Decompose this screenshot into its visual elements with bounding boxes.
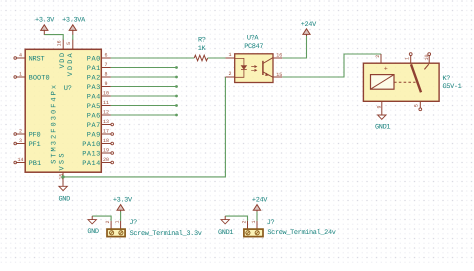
pin 3 PF1	[14, 138, 41, 149]
power symbol +3.3V	[35, 16, 55, 35]
microcontroller U? STM32F030F4Px body	[25, 49, 101, 172]
svg-text:9: 9	[104, 81, 107, 87]
svg-text:9: 9	[377, 105, 383, 108]
wire from PA2	[111, 76, 178, 79]
wire +3.3VA to VDDA pin 5	[72, 35, 74, 40]
pin 20 PA14	[82, 157, 111, 168]
relay pin 5 contact	[414, 101, 422, 110]
svg-text:GND: GND	[59, 195, 71, 203]
svg-text:16: 16	[57, 40, 63, 46]
svg-text:NRST: NRST	[29, 55, 45, 63]
svg-text:PA5: PA5	[87, 103, 101, 111]
svg-text:15: 15	[276, 72, 282, 78]
pin 16 VDD	[57, 40, 68, 69]
ground GND under MCU	[59, 177, 71, 203]
wire from PA1	[111, 66, 178, 69]
svg-text:PA7: PA7	[87, 122, 101, 130]
svg-text:20: 20	[103, 157, 109, 163]
power symbol +3.3V at terminal J?	[113, 196, 133, 211]
pin 18 PA10	[82, 138, 111, 149]
svg-text:R?: R?	[198, 36, 206, 44]
pin 7 PA1	[87, 62, 111, 73]
svg-text:VSS: VSS	[58, 154, 66, 171]
svg-text:+: +	[384, 65, 388, 72]
pin 8 PA2	[87, 71, 111, 82]
svg-text:8: 8	[104, 71, 107, 77]
relay pin 2 coil+	[375, 54, 388, 72]
pin 6 PA0	[87, 52, 111, 63]
wire from PA5	[111, 104, 178, 107]
svg-text:+24V: +24V	[252, 196, 268, 204]
svg-text:12: 12	[103, 109, 109, 115]
svg-text:PC847: PC847	[244, 43, 263, 51]
svg-text:11: 11	[103, 100, 109, 106]
pin 11 PA5	[87, 100, 111, 111]
svg-text:19: 19	[103, 147, 109, 153]
relay coil	[371, 75, 395, 90]
svg-text:U?A: U?A	[247, 34, 260, 42]
relay pin 9 coil-	[377, 101, 383, 111]
svg-text:6: 6	[104, 52, 107, 58]
svg-text:3: 3	[19, 138, 22, 144]
wire terminal pin 2 to GND1	[225, 216, 247, 221]
wire from PA6	[111, 114, 178, 117]
svg-text:2: 2	[105, 220, 111, 223]
wire PA0 to resistor	[111, 57, 194, 59]
svg-text:PA0: PA0	[87, 55, 101, 63]
pin 13 PA7	[87, 119, 111, 130]
svg-text:1: 1	[405, 57, 411, 60]
resistor R? 1K	[194, 36, 208, 61]
svg-text:+24V: +24V	[301, 21, 317, 29]
opto phototransistor	[263, 58, 273, 77]
junction at VSS node	[61, 175, 64, 178]
svg-text:14: 14	[17, 157, 23, 163]
opto light arrows	[251, 66, 256, 72]
svg-text:GND1: GND1	[218, 229, 233, 237]
unconnected pin circle PA14	[111, 161, 114, 164]
svg-text:G5V-1: G5V-1	[443, 83, 462, 91]
relay dashed actuator line	[394, 81, 416, 83]
wire +3.3V to terminal pin 1	[120, 212, 122, 221]
relay K? G5V-1 body	[363, 63, 439, 101]
svg-text:+3.3V: +3.3V	[35, 16, 55, 24]
svg-text:5: 5	[66, 42, 72, 45]
svg-text:PA13: PA13	[82, 150, 100, 158]
svg-text:1K: 1K	[198, 45, 207, 53]
svg-text:Screw_Terminal_24v: Screw_Terminal_24v	[267, 229, 335, 237]
screw terminal J? Screw_Terminal_24v	[241, 219, 335, 237]
wire terminal pin 2 to GND	[92, 216, 111, 221]
wire from PA4	[111, 95, 178, 98]
svg-text:18: 18	[103, 138, 109, 144]
unconnected pin circle PA13	[111, 152, 114, 155]
pin 12 PA6	[87, 109, 111, 120]
wire opto collector to +24V	[282, 35, 306, 58]
svg-text:1: 1	[19, 71, 22, 77]
pin 2 PF0	[14, 128, 41, 139]
svg-text:2: 2	[228, 71, 231, 77]
ground GND at terminal	[87, 216, 99, 236]
pin 15 VSS	[58, 154, 66, 180]
svg-text:PF0: PF0	[29, 131, 41, 139]
opto pin 16 collector	[273, 53, 282, 59]
svg-text:PA2: PA2	[87, 74, 101, 82]
svg-text:U?: U?	[64, 85, 72, 93]
svg-text:Screw_Terminal_3.3v: Screw_Terminal_3.3v	[130, 230, 202, 238]
svg-text:PA1: PA1	[87, 65, 101, 73]
pin 1 BOOT0	[14, 71, 50, 82]
svg-text:VDDA: VDDA	[67, 52, 75, 76]
svg-text:17: 17	[103, 128, 109, 134]
svg-text:1: 1	[251, 220, 257, 223]
svg-text:5: 5	[414, 104, 420, 107]
wire from PA3	[111, 85, 178, 88]
svg-text:2: 2	[19, 128, 22, 134]
relay pin 1 common	[405, 53, 413, 64]
pin 17 PA9	[87, 128, 111, 139]
unconnected pin circle PA9	[111, 133, 114, 136]
pin 9 PA3	[87, 81, 111, 92]
relay switch lever	[411, 64, 421, 92]
screw terminal J? Screw_Terminal_3.3v	[105, 219, 202, 238]
svg-text:10: 10	[424, 54, 430, 60]
wire resistor to optocoupler pin 1	[208, 57, 226, 59]
svg-text:K?: K?	[443, 75, 451, 83]
opto pin 15 emitter	[273, 72, 282, 78]
svg-text:+3.3VA: +3.3VA	[62, 16, 86, 24]
svg-text:J?: J?	[129, 219, 137, 227]
svg-text:PA3: PA3	[87, 84, 101, 92]
pin 4 NRST	[14, 52, 45, 63]
svg-text:1: 1	[228, 52, 231, 58]
power symbol +24V at terminal J?	[252, 196, 268, 211]
svg-text:PF1: PF1	[29, 141, 41, 149]
svg-text:10: 10	[103, 90, 109, 96]
svg-text:GND1: GND1	[375, 124, 390, 132]
svg-text:13: 13	[103, 119, 109, 125]
svg-text:VDD: VDD	[59, 53, 67, 69]
svg-text:PB1: PB1	[29, 160, 41, 168]
wire opto emitter to relay coil pin 2	[282, 54, 381, 77]
svg-text:7: 7	[104, 62, 107, 68]
pin 14 PB1	[14, 157, 41, 168]
opto pin 2 cathode	[225, 71, 234, 77]
power symbol +3.3VA	[62, 16, 86, 35]
pin 19 PA13	[82, 147, 111, 158]
svg-text:+3.3V: +3.3V	[113, 196, 133, 204]
svg-text:GND: GND	[87, 228, 99, 236]
svg-text:PA6: PA6	[87, 112, 101, 120]
wire +24V to terminal pin 1	[256, 212, 258, 221]
power symbol +24V	[301, 21, 317, 36]
opto pin 1 anode	[226, 52, 235, 58]
svg-text:PA9: PA9	[87, 131, 101, 139]
unconnected pin circle PA7	[111, 123, 114, 126]
unconnected pin circle PA10	[111, 142, 114, 145]
svg-text:BOOT0: BOOT0	[29, 74, 50, 82]
pin 5 VDDA	[66, 40, 75, 77]
optocoupler U?A PC847 body	[235, 54, 273, 83]
opto internal LED	[235, 58, 247, 77]
svg-text:2: 2	[375, 55, 381, 58]
svg-text:PA10: PA10	[82, 141, 100, 149]
svg-text:PA4: PA4	[87, 93, 101, 101]
svg-text:J?: J?	[267, 219, 275, 227]
svg-text:2: 2	[241, 220, 247, 223]
ground GND1 at terminal	[218, 216, 233, 237]
relay pin 10 contact	[424, 53, 431, 70]
ground GND1 under relay	[375, 111, 390, 132]
svg-text:PA14: PA14	[82, 160, 100, 168]
pin 10 PA4	[87, 90, 111, 101]
svg-text:1: 1	[115, 220, 121, 223]
svg-text:4: 4	[19, 52, 22, 58]
wire VSS node to optocoupler cathode	[63, 77, 225, 177]
wire +3.3V to VDD pin 16	[44, 35, 63, 40]
svg-text:16: 16	[276, 53, 282, 59]
